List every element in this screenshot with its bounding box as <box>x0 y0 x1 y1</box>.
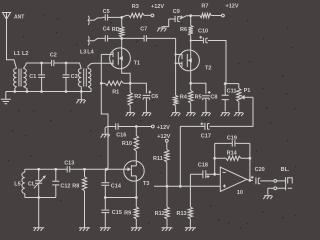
wire rail to L3 <box>66 63 81 69</box>
node C12 top <box>54 168 57 171</box>
node C3 top <box>65 62 68 65</box>
op-amp minus sign <box>223 171 226 173</box>
node R14 right <box>249 157 252 160</box>
wire opamp output <box>247 179 253 180</box>
wire L4 top to T1 gate2 <box>88 63 113 68</box>
svg-text:L4: L4 <box>87 49 94 55</box>
svg-text:C20: C20 <box>255 167 265 173</box>
svg-text:T1: T1 <box>134 61 140 67</box>
capacitor C8 <box>191 83 218 112</box>
wire output ground <box>268 188 274 195</box>
capacitor C9 <box>169 9 191 22</box>
svg-text:L3: L3 <box>80 49 86 55</box>
node T2 gate2 <box>175 62 177 64</box>
ground under R12 <box>162 228 173 231</box>
label L3 L4 <box>80 49 95 55</box>
svg-text:L2: L2 <box>22 51 28 57</box>
label L5 <box>14 182 20 188</box>
terminal +12V (T3) <box>151 125 170 131</box>
ground under R9 <box>131 228 142 231</box>
wire T3 source rail <box>105 197 136 199</box>
inductor L5 <box>22 169 25 197</box>
resistor R9 <box>124 198 138 228</box>
wire C17 left to AF rail <box>180 126 199 186</box>
svg-text:R3: R3 <box>132 4 139 10</box>
node tank bottom <box>37 196 40 199</box>
node C11 top <box>224 82 227 85</box>
capacitor CL trimmer <box>28 169 42 197</box>
svg-text:R2: R2 <box>134 94 141 100</box>
svg-text:C8: C8 <box>210 95 217 101</box>
svg-text:R11: R11 <box>153 156 163 162</box>
svg-text:C6: C6 <box>151 94 158 100</box>
svg-text:BL.: BL. <box>281 167 290 173</box>
svg-text:RD: RD <box>112 27 120 33</box>
wire T2 drain <box>190 41 192 51</box>
node L2 bus <box>26 90 29 93</box>
svg-text:R10: R10 <box>122 141 132 147</box>
ground under C8 <box>201 113 210 117</box>
capacitor C19 <box>215 135 250 146</box>
node inverting input <box>213 173 216 176</box>
wire T2 source <box>190 70 192 83</box>
svg-text:10: 10 <box>237 190 243 196</box>
node T2 source/R5 <box>189 82 192 85</box>
svg-text:C1: C1 <box>29 74 36 80</box>
wire T1 drain <box>121 38 123 48</box>
capacitor C17 <box>200 123 211 140</box>
svg-text:C2: C2 <box>50 53 57 59</box>
wire feedback right <box>249 143 251 180</box>
wire ground bus <box>6 91 92 93</box>
ground under C15 <box>100 228 111 231</box>
node L3 bottom <box>80 90 83 93</box>
wire tank top rail <box>25 168 67 170</box>
capacitor C14 <box>101 169 122 197</box>
P1 wiper arrow <box>241 95 253 100</box>
wire inverting input <box>215 173 221 175</box>
node T1 source/R2 <box>129 82 132 85</box>
wire T1 gate bias vertical <box>101 54 108 169</box>
svg-text:R5: R5 <box>195 95 202 101</box>
coupling coil to C5 <box>88 16 102 25</box>
terminal +12V (R11) <box>157 134 170 142</box>
svg-text:P1: P1 <box>244 88 251 94</box>
wire L2 top to C1/C2 rail <box>26 62 51 64</box>
node C5/R3/RD <box>120 16 123 19</box>
capacitor C13 <box>64 161 124 173</box>
wire opamp + input rail <box>154 185 220 187</box>
capacitor C12 <box>52 169 70 197</box>
resistor R14 <box>215 150 250 160</box>
node C1 bottom <box>40 90 43 93</box>
capacitor C20 <box>251 167 274 184</box>
ground under P1 <box>234 113 243 117</box>
capacitor C16 <box>107 123 136 138</box>
svg-text:T2: T2 <box>205 66 211 72</box>
node output <box>249 179 252 182</box>
coupling coil to C4 <box>88 36 102 45</box>
node C4/C7/drain <box>120 37 123 40</box>
capacitor C6 <box>130 83 158 112</box>
label L1 L2 <box>14 51 29 57</box>
node R14 left <box>213 157 216 160</box>
node C3 bottom <box>65 90 68 93</box>
svg-text:L5: L5 <box>14 182 20 188</box>
svg-text:R7: R7 <box>201 4 208 10</box>
node R9 top <box>135 196 138 199</box>
resistor R10 <box>122 127 139 161</box>
svg-text:C18: C18 <box>198 162 208 168</box>
resistor R6 <box>180 16 193 41</box>
ground under C6 <box>142 113 151 117</box>
node L1 bus <box>13 90 16 93</box>
wire wiper to C17 rail <box>210 97 254 126</box>
resistor R3 <box>122 4 151 18</box>
svg-text:C12: C12 <box>60 183 70 189</box>
wire to +12V terminal (T3) <box>136 126 151 128</box>
terminal output gnd <box>274 187 277 190</box>
wire T1 source <box>122 68 131 83</box>
svg-text:ANT: ANT <box>14 15 24 21</box>
wire tank to ground <box>38 198 40 228</box>
ground at output <box>263 196 272 200</box>
antenna ANT <box>3 13 25 69</box>
resistor R11 <box>153 142 169 186</box>
ground under R5 <box>186 113 195 117</box>
CL trimmer arrow <box>34 175 46 188</box>
svg-text:R6: R6 <box>180 27 187 33</box>
svg-text:C3: C3 <box>71 74 78 80</box>
ground under R13 <box>185 228 196 231</box>
svg-text:C5: C5 <box>103 9 110 15</box>
svg-text:C4: C4 <box>103 26 111 32</box>
transistor T2 dual-gate MOSFET <box>179 50 212 72</box>
node C14 top <box>105 168 108 171</box>
node CL top <box>37 168 40 171</box>
capacitor C5 <box>102 9 122 21</box>
resistor R12 <box>155 186 170 227</box>
capacitor C18 <box>190 162 214 178</box>
node C14/C15/T3 source <box>104 196 107 199</box>
svg-text:+12V: +12V <box>226 4 239 10</box>
wire feedback left <box>214 143 216 174</box>
svg-text:T3: T3 <box>143 181 149 187</box>
svg-text:C16: C16 <box>116 133 126 139</box>
ground for C9 <box>157 19 169 32</box>
node R1 left <box>100 82 103 85</box>
ground under R4 <box>171 113 180 117</box>
wire T2 gate2 stub <box>176 62 182 64</box>
resistor R1 <box>101 81 130 96</box>
svg-text:C15: C15 <box>112 210 122 216</box>
core L1L2 <box>19 69 21 87</box>
inductor L4 <box>88 69 91 92</box>
terminal +12V (R3) <box>151 4 164 17</box>
ground under C11 <box>221 113 230 117</box>
svg-text:R8: R8 <box>72 183 79 189</box>
svg-text:C14: C14 <box>111 183 122 189</box>
potentiometer P1 <box>237 84 251 112</box>
svg-text:L1: L1 <box>14 51 20 57</box>
node AF join <box>179 185 182 188</box>
svg-text:+12V: +12V <box>157 134 170 140</box>
svg-text:C11: C11 <box>227 89 237 95</box>
resistor RD <box>112 17 124 38</box>
node R6 top <box>189 14 192 17</box>
resistor R7 <box>191 4 222 18</box>
op-amp plus sign <box>223 184 226 187</box>
node C1 top <box>40 62 43 65</box>
inductor L2 <box>23 63 27 92</box>
ground front-end left <box>1 92 11 104</box>
capacitor C1 <box>29 63 45 92</box>
svg-text:+12V: +12V <box>151 4 164 10</box>
ground for C16 <box>101 127 110 138</box>
svg-text:R12: R12 <box>155 211 165 217</box>
ground under R8 <box>79 228 90 231</box>
node T2 gate1 <box>175 53 177 55</box>
svg-text:R13: R13 <box>177 211 187 217</box>
inductor L1 <box>14 69 17 92</box>
capacitor C3 <box>63 63 78 92</box>
wire T2 gates vertical <box>175 38 177 95</box>
svg-text:+12V: +12V <box>157 125 170 131</box>
wire tank bottom rail <box>25 197 56 199</box>
capacitor C10 <box>191 28 226 83</box>
label BL <box>281 167 290 173</box>
transistor T3 <box>124 161 150 187</box>
capacitor C2 <box>52 60 66 66</box>
resistor R4 <box>173 95 187 113</box>
svg-text:C7: C7 <box>140 26 147 32</box>
svg-text:C10: C10 <box>198 28 208 34</box>
node R8 top <box>83 168 86 171</box>
svg-text:R9: R9 <box>124 210 131 216</box>
terminal output hot <box>274 180 277 183</box>
capacitor C4 <box>102 26 122 41</box>
resistor R2 <box>128 83 141 112</box>
wire detector rail <box>226 83 239 85</box>
svg-text:C17: C17 <box>201 134 211 140</box>
inductor L3 <box>78 69 81 92</box>
svg-text:R4: R4 <box>180 95 188 101</box>
resistor R8 <box>72 169 86 227</box>
node R10 top <box>135 125 138 128</box>
terminal +12V (R7) <box>222 4 239 17</box>
op-amp 10 triangle <box>220 167 247 196</box>
ground under L3 bus <box>76 92 85 104</box>
ground under tank <box>33 228 44 231</box>
resistor R13 <box>177 174 193 227</box>
wire T3 source <box>135 181 137 198</box>
wire T1 gate1 <box>101 53 113 55</box>
capacitor C11 <box>222 84 237 112</box>
node R11/R12 <box>166 185 169 188</box>
node T2 drain <box>190 39 192 41</box>
svg-text:C9: C9 <box>173 9 180 15</box>
wire T2 gate1 stub <box>176 53 182 55</box>
capacitor C15 <box>101 198 122 228</box>
ground under R2 <box>126 113 135 117</box>
svg-text:R1: R1 <box>112 90 119 96</box>
capacitor C7 <box>122 26 176 41</box>
transistor T1 dual-gate MOSFET <box>110 48 140 69</box>
phone jack <box>277 177 293 190</box>
resistor R5 <box>189 83 202 112</box>
label C2 <box>50 53 57 59</box>
core L3L4 <box>84 69 87 87</box>
svg-text:C13: C13 <box>64 161 74 167</box>
